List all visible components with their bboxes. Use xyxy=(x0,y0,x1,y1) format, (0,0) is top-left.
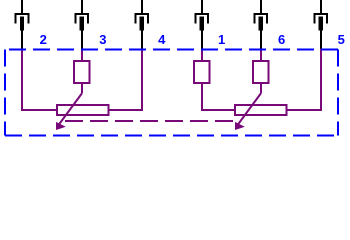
svg-text:2: 2 xyxy=(40,32,47,47)
component outline dashed box left edge xyxy=(4,49,6,135)
component outline dashed box top edge xyxy=(5,48,338,50)
wire pin 4 to left pot CW end xyxy=(109,49,142,111)
pin 4 terminal xyxy=(135,0,149,49)
pin 1 terminal xyxy=(195,0,209,49)
svg-text:6: 6 xyxy=(278,32,285,47)
wire pin 3 to resistor R1 xyxy=(81,49,83,62)
left potentiometer body xyxy=(57,105,109,115)
wire resistor R2 to right pot CCW end xyxy=(202,83,235,110)
wire pin 2 to left pot CCW end xyxy=(22,49,57,111)
pin 6 terminal xyxy=(254,0,268,49)
left pot wiper arrowhead xyxy=(56,122,66,130)
right pot wiper diagonal xyxy=(238,94,260,125)
component outline dashed box bottom edge xyxy=(5,135,338,137)
resistor R2 (series with pin 1) xyxy=(194,61,209,83)
resistor R3 (series with pin 6 wiper) xyxy=(253,61,268,83)
wire resistor R3 to right pot wiper xyxy=(260,83,262,94)
svg-text:3: 3 xyxy=(99,32,106,47)
wire pin 6 to resistor R3 xyxy=(260,49,262,62)
svg-text:5: 5 xyxy=(338,32,345,47)
wire pin 5 to right pot CW end xyxy=(287,49,321,111)
svg-text:1: 1 xyxy=(218,32,225,47)
pin 5 terminal xyxy=(314,0,328,49)
gang coupling dashed line between wipers xyxy=(65,120,233,122)
resistor R1 (series with pin 3 wiper) xyxy=(74,61,89,83)
pin 2 terminal xyxy=(15,0,29,49)
component outline dashed box right edge xyxy=(337,49,339,135)
svg-text:4: 4 xyxy=(158,32,166,47)
left pot wiper diagonal xyxy=(59,94,82,125)
wire resistor R1 to left pot wiper xyxy=(81,83,83,94)
pin 3 terminal xyxy=(75,0,89,49)
right potentiometer body xyxy=(235,105,287,115)
right pot wiper arrowhead xyxy=(235,122,245,130)
wire pin 1 to resistor R2 xyxy=(201,49,203,62)
